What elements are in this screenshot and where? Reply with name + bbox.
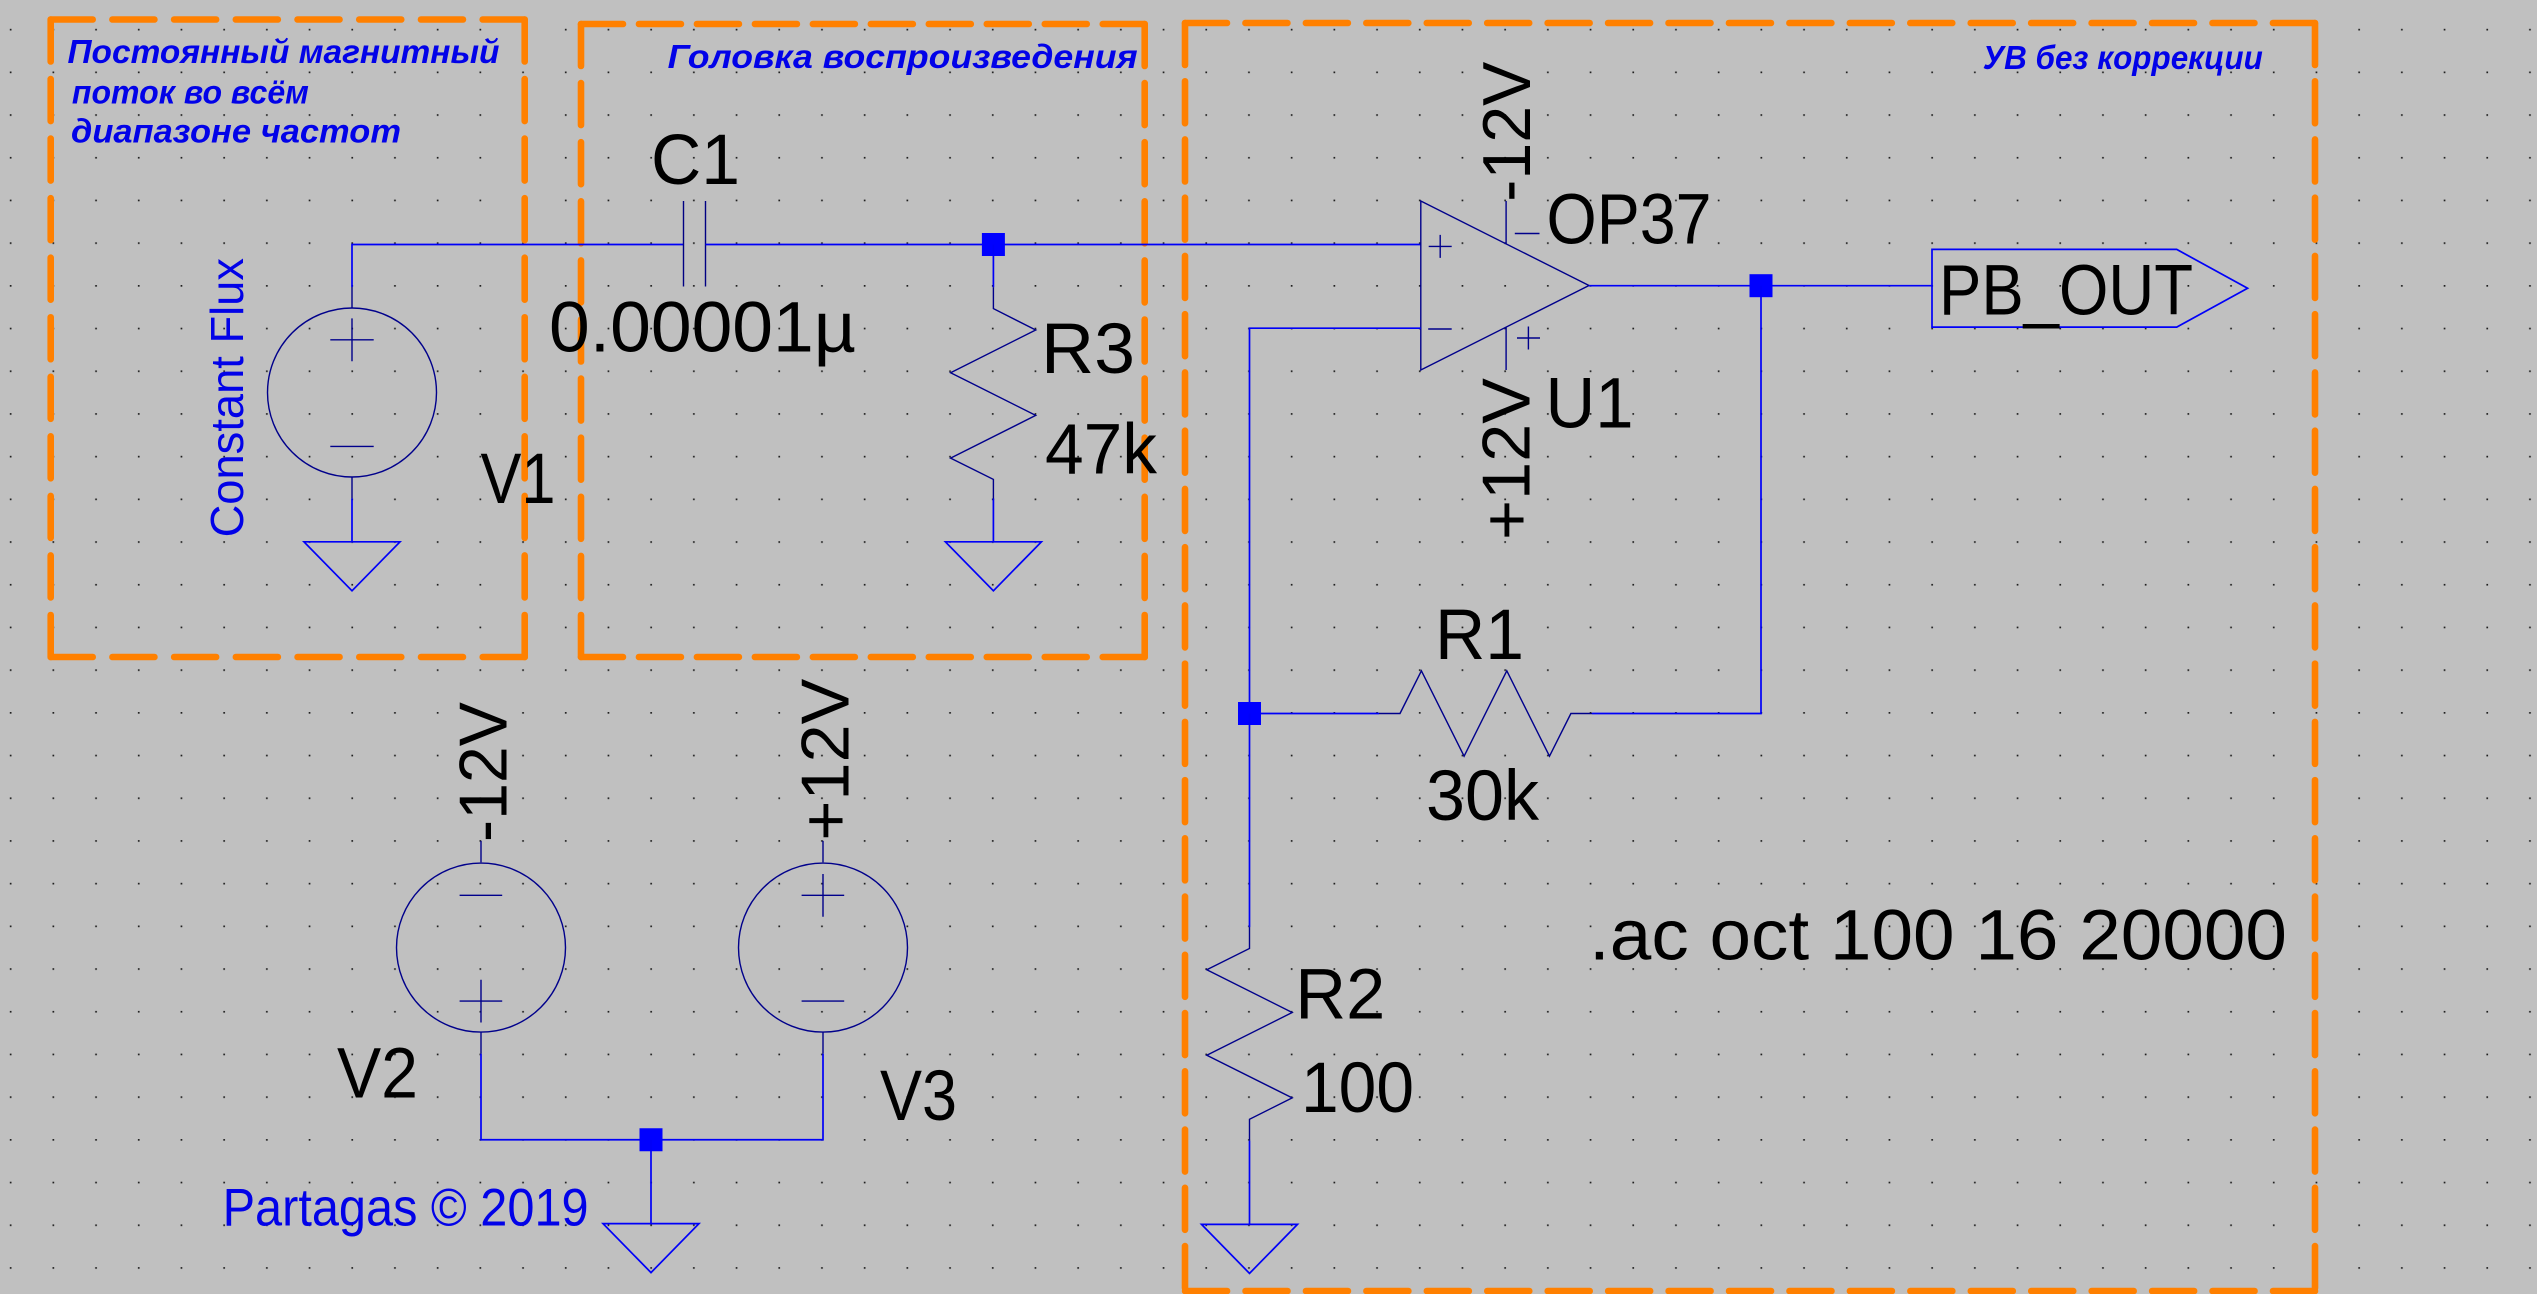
resistor R3 (951, 287, 1036, 500)
svg-text:0.00001µ: 0.00001µ (549, 289, 856, 368)
spice directive .ac (1589, 897, 2287, 976)
wire op-amp output (1589, 285, 1932, 287)
label V2 (337, 1034, 418, 1113)
svg-text:-12V: -12V (1469, 61, 1545, 202)
ground below V2/V3 (603, 1224, 699, 1273)
wire junction to R1 (1250, 713, 1380, 715)
svg-text:+12V: +12V (1468, 377, 1544, 540)
svg-text:Постоянный магнитный: Постоянный магнитный (68, 33, 500, 70)
wire V2 top stub (480, 841, 482, 862)
svg-text:-12V: -12V (445, 701, 521, 842)
comment text: Головка воспроизведения (668, 38, 1138, 75)
wire C1 to op-amp +input (706, 244, 1421, 246)
comment text: УВ без коррекции (1983, 39, 2263, 76)
wire V3 bottom to junction (651, 1032, 823, 1139)
comment box: Головка воспроизведения region (581, 24, 1145, 657)
capacitor C1 (684, 201, 706, 287)
resistor R1 (1379, 671, 1592, 756)
svg-text:R3: R3 (1041, 310, 1135, 389)
node junction V2/V3 (640, 1128, 663, 1151)
label PB_OUT (1939, 251, 2193, 330)
resistor R2 (1207, 927, 1292, 1141)
comment box: Constant flux region (51, 20, 525, 658)
ground below V1 (304, 542, 400, 591)
label V3 (880, 1057, 957, 1136)
wire output node down to R1 (1592, 286, 1761, 714)
node junction at C1/R3 (982, 233, 1005, 256)
svg-text:V2: V2 (337, 1034, 418, 1113)
wire junction to ground (650, 1140, 652, 1224)
svg-text:Partagas © 2019: Partagas © 2019 (223, 1178, 589, 1237)
wire R3 bottom (992, 499, 994, 542)
svg-text:47k: 47k (1045, 410, 1157, 489)
value label 47k (1045, 410, 1157, 489)
comment text: Постоянный магнитный поток во всём диапазоне частот (68, 33, 500, 150)
svg-text:U1: U1 (1546, 364, 1634, 443)
label C1 (651, 121, 740, 200)
svg-text:30k: 30k (1426, 757, 1539, 836)
svg-text:Constant Flux: Constant Flux (201, 258, 253, 537)
node junction at R1/R2 (1238, 702, 1261, 725)
ground below R3 (945, 542, 1041, 591)
wire junction to R2 (1249, 714, 1251, 928)
wire R2 bottom (1249, 1141, 1251, 1225)
svg-text:100: 100 (1301, 1049, 1414, 1128)
svg-text:R2: R2 (1295, 955, 1385, 1034)
wire node to R3 (992, 245, 994, 288)
comment box: УВ без коррекции region (1185, 23, 2315, 1291)
svg-text:V3: V3 (880, 1057, 957, 1136)
svg-text:C1: C1 (651, 121, 740, 200)
svg-text:+12V: +12V (787, 678, 863, 841)
svg-text:диапазоне частот: диапазоне частот (71, 113, 401, 150)
net label +12V at op-amp (1468, 377, 1544, 540)
svg-text:PB_OUT: PB_OUT (1939, 251, 2193, 330)
label U1 (1546, 364, 1634, 443)
value label Constant Flux (201, 258, 253, 537)
voltage source V1 (268, 308, 437, 477)
net label -12V at V2 (445, 701, 521, 842)
svg-text:R1: R1 (1435, 596, 1524, 675)
wire op-amp -input (1250, 328, 1421, 713)
wire V1 bottom (351, 477, 353, 542)
voltage source V3 (739, 863, 908, 1032)
ground below R2 (1202, 1224, 1298, 1273)
value label 0.00001µ (549, 289, 856, 368)
svg-text:УВ без коррекции: УВ без коррекции (1983, 39, 2263, 76)
wire V3 top stub (822, 841, 824, 862)
comment text: Partagas © 2019 (223, 1178, 589, 1237)
voltage source V2 (397, 863, 566, 1032)
svg-text:Головка воспроизведения: Головка воспроизведения (668, 38, 1138, 75)
svg-text:OP37: OP37 (1547, 180, 1712, 259)
label R2 (1295, 955, 1385, 1034)
output flag PB_OUT (1932, 249, 2248, 327)
node junction at output (1750, 274, 1773, 297)
label V1 (481, 440, 556, 519)
value label 100 (1301, 1049, 1414, 1128)
net label -12V at op-amp (1469, 61, 1545, 202)
label R1 (1435, 596, 1524, 675)
wire V2 bottom to junction (481, 1032, 651, 1139)
svg-text:поток во всём: поток во всём (72, 73, 309, 110)
label R3 (1041, 310, 1135, 389)
label OP37 (1547, 180, 1712, 259)
value label 30k (1426, 757, 1539, 836)
svg-text:.ac oct 100 16 20000: .ac oct 100 16 20000 (1589, 897, 2287, 976)
wire V1 top (352, 245, 684, 309)
op-amp U1 (1421, 201, 1589, 370)
svg-text:V1: V1 (481, 440, 556, 519)
net label +12V at V3 (787, 678, 863, 841)
